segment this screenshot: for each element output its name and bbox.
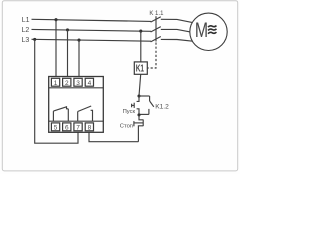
terminal 6 bbox=[63, 123, 71, 131]
wire L3 to terminal 3 bbox=[78, 40, 80, 79]
svg-text:K 1.1: K 1.1 bbox=[149, 11, 164, 17]
pushbutton Стоп lower contact bbox=[138, 126, 143, 142]
relay internal contact 7-8 stub pin 7 bbox=[77, 112, 79, 122]
pushbutton Пуск bridge bbox=[133, 103, 135, 108]
wire K1.2 branch bottom bbox=[139, 113, 149, 115]
wire L3 bus bbox=[32, 39, 152, 41]
svg-text:6: 6 bbox=[65, 124, 69, 131]
pushbutton Пуск actuator bbox=[132, 104, 135, 106]
wire L2 to motor bbox=[161, 29, 190, 32]
svg-text:4: 4 bbox=[88, 80, 92, 87]
svg-text:Стоп: Стоп bbox=[120, 123, 133, 129]
motor AC triple tilde symbol bbox=[208, 26, 217, 28]
svg-text:L3: L3 bbox=[22, 37, 30, 44]
svg-text:8: 8 bbox=[88, 124, 92, 131]
wire left rail L3 to terminal 7 bbox=[35, 39, 78, 143]
node junction top of start button bbox=[137, 94, 140, 97]
pushbutton Пуск cap bbox=[131, 104, 133, 108]
terminal 5 bbox=[51, 123, 59, 131]
svg-text:K1: K1 bbox=[136, 64, 145, 75]
contactor K1.1 link dashed to coil bbox=[148, 43, 156, 69]
wire L2 to coil K1 bbox=[140, 31, 142, 62]
svg-text:3: 3 bbox=[76, 80, 80, 87]
svg-text:L1: L1 bbox=[22, 17, 30, 24]
contactor K1.1 pole 1 blade bbox=[151, 17, 161, 22]
junction L3 to terminal 3 bbox=[77, 39, 80, 42]
svg-text:M: M bbox=[195, 19, 208, 42]
wire to K1.2 branch bbox=[139, 95, 150, 97]
contact K1.2 upper stub bbox=[149, 96, 151, 101]
svg-text:K1.2: K1.2 bbox=[155, 104, 169, 111]
contact K1.2 blade bbox=[150, 101, 154, 107]
wire coil K1 to start circuit bbox=[139, 74, 141, 96]
terminal 7 bbox=[74, 123, 82, 131]
relay internal contact 5-6 stub pin 6 bbox=[67, 109, 69, 121]
relay internal contact 5-6 blade bbox=[53, 107, 68, 111]
terminal 8 bbox=[85, 123, 93, 131]
node junction below start button bbox=[137, 113, 140, 116]
wire L2 bus bbox=[32, 29, 152, 31]
terminal 1 bbox=[51, 78, 59, 86]
terminal 3 bbox=[74, 78, 82, 86]
relay bottom terminal strip line bbox=[49, 120, 104, 122]
svg-text:L2: L2 bbox=[22, 27, 30, 34]
svg-text:1: 1 bbox=[54, 80, 58, 87]
contactor K1.1 pole 3 blade bbox=[151, 37, 161, 42]
pushbutton Стоп cap bbox=[133, 121, 135, 126]
pushbutton Стоп upper contact bbox=[139, 115, 143, 120]
wire L1 bus bbox=[32, 19, 152, 21]
junction L2 to terminal 2 bbox=[66, 28, 69, 31]
junction L1 to terminal 1 bbox=[54, 18, 57, 21]
pushbutton Стоп actuator bbox=[134, 122, 143, 124]
contact K1.2 lower stub bbox=[148, 109, 150, 115]
relay internal contact 7-8 stub pin 8 bbox=[91, 110, 93, 121]
contactor coil K1 box bbox=[134, 62, 147, 74]
wire L2 to terminal 2 bbox=[67, 30, 69, 79]
wire L1 to motor bbox=[161, 19, 193, 22]
pushbutton Пуск lower fixed contact bbox=[137, 109, 139, 115]
junction L3 left rail bbox=[33, 38, 36, 41]
pushbutton Пуск upper fixed contact bbox=[137, 96, 139, 101]
svg-text:7: 7 bbox=[76, 124, 80, 131]
svg-text:5: 5 bbox=[54, 124, 58, 131]
wire L1 to terminal 1 bbox=[55, 20, 57, 79]
relay top terminal strip line bbox=[49, 87, 104, 89]
relay A1 body bbox=[49, 77, 104, 133]
wire L3 to motor bbox=[161, 39, 193, 41]
terminal 2 bbox=[63, 78, 71, 86]
relay internal contact 7-8 blade bbox=[78, 106, 92, 112]
svg-text:Пуск: Пуск bbox=[123, 109, 136, 115]
pushbutton Стоп bridge bbox=[142, 120, 144, 127]
svg-text:2: 2 bbox=[65, 80, 69, 87]
terminal 4 bbox=[85, 78, 93, 86]
wire stop circuit to terminal 8 bbox=[89, 132, 138, 142]
junction L2 to contactor coil bbox=[139, 30, 142, 33]
motor M circle bbox=[190, 13, 227, 50]
contactor K1.1 pole 2 blade bbox=[151, 27, 161, 32]
relay internal contact 5-6 stub pin 5 bbox=[52, 111, 54, 121]
contactor K1.1 mechanical link bbox=[155, 16, 157, 41]
